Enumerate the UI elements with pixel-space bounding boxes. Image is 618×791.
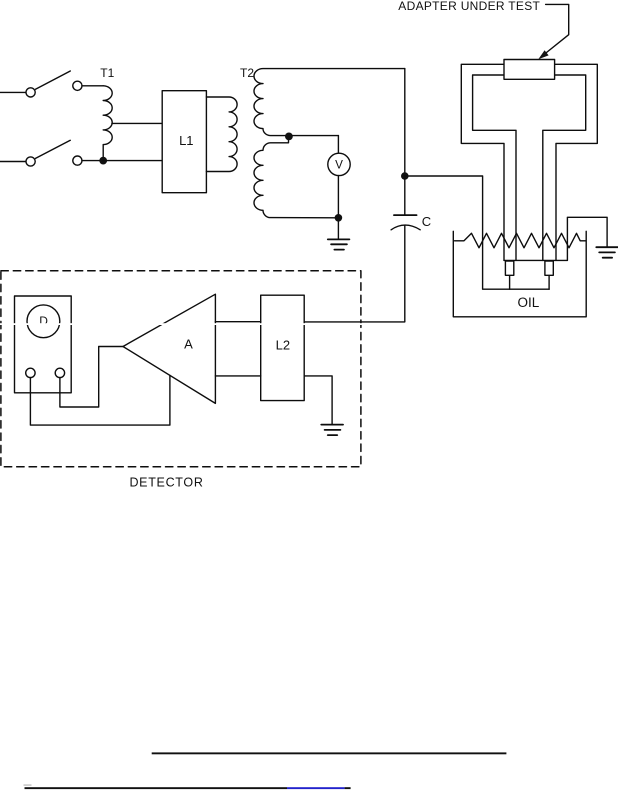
switch S1 blade [36,71,71,89]
wire S2 to node [82,160,103,162]
oscilloscope dial circle [27,305,60,338]
junction dot node [401,172,409,180]
adapter inner shell right [543,75,586,260]
wire adapter shell bottom [504,259,567,261]
footer rule 2 black right [345,787,351,789]
oil container [453,231,586,316]
adapter outer shell left [461,64,504,260]
junction dot V bottom [335,214,343,222]
wire T1 bottom to L1 [103,160,162,162]
svg-text:DETECTOR: DETECTOR [129,476,203,490]
wire node to adapter [405,176,549,289]
wire bottom switch input [0,161,26,163]
wire amp to L2 top [215,321,260,323]
oscilloscope terminal left [26,368,35,377]
footer rule 2 black left [25,787,288,789]
svg-text:T2: T2 [240,66,254,80]
transformer T1 primary coil [103,86,112,157]
wire shell to ground [567,217,607,260]
wire scope left terminal to amp [30,375,170,425]
oscilloscope terminal right [55,368,64,377]
inductor L2 box [261,295,305,400]
adapter connector rect [504,60,555,80]
adapter inner shell left [473,75,516,260]
capacitor C curved plate [391,225,420,230]
footer rule 2 blue link segment [287,787,345,789]
svg-text:T1: T1 [100,66,114,80]
switch S2 contact left [26,157,35,166]
wire T2 top to node [404,69,406,176]
electrode left [505,261,513,275]
ground adapter [596,247,618,258]
capacitor C top plate [394,214,417,216]
amplifier A triangle [123,294,215,403]
ground L2 [321,425,343,436]
faint text remnant [24,784,32,786]
ground T2 [328,239,350,249]
transformer T2 upper coil [254,69,405,136]
switch S2 contact right [73,156,82,165]
switch S2 blade [36,140,71,158]
svg-text:L2: L2 [276,338,290,353]
white seam artifact [0,323,618,325]
wire S1 to T1 [82,85,103,87]
svg-text:V: V [335,159,343,172]
footer rule 1 [152,752,507,754]
wire top switch input [0,91,26,93]
switch S1 contact left [26,88,35,97]
oscilloscope box [15,296,72,393]
svg-text:C: C [422,214,431,229]
junction dot T1 bottom [99,157,107,165]
wire tap to voltmeter [337,136,339,154]
inductor L1 secondary coil [206,97,237,172]
transformer T2 lower coil [254,136,338,218]
svg-text:OIL: OIL [518,295,540,310]
detector dashed enclosure [1,271,361,467]
wire electrode right lead [548,275,550,289]
svg-text:ADAPTER UNDER TEST: ADAPTER UNDER TEST [398,0,540,13]
leader line arrow [544,4,569,54]
svg-text:D: D [39,314,48,328]
adapter outer shell right [555,64,598,260]
junction dot T2 center tap [285,133,293,141]
wire L2 to ground [304,376,332,424]
switch S1 contact right [73,81,82,90]
wire node down to capacitor [404,176,406,215]
wire electrode left lead [509,275,511,289]
wire V to junction [337,176,339,240]
wire amp to L2 bottom [215,375,260,377]
wire capacitor to L2 output [304,226,405,322]
svg-text:A: A [184,337,193,352]
electrode right [545,261,553,275]
wire T1 tap to L1 [112,122,162,124]
inductor L1 box [162,91,206,193]
wire scope right terminal to amp tip [60,347,123,408]
svg-text:L1: L1 [179,133,193,148]
arrowhead [538,50,548,59]
oil surface zigzag [455,233,586,248]
voltmeter V circle [328,153,350,175]
